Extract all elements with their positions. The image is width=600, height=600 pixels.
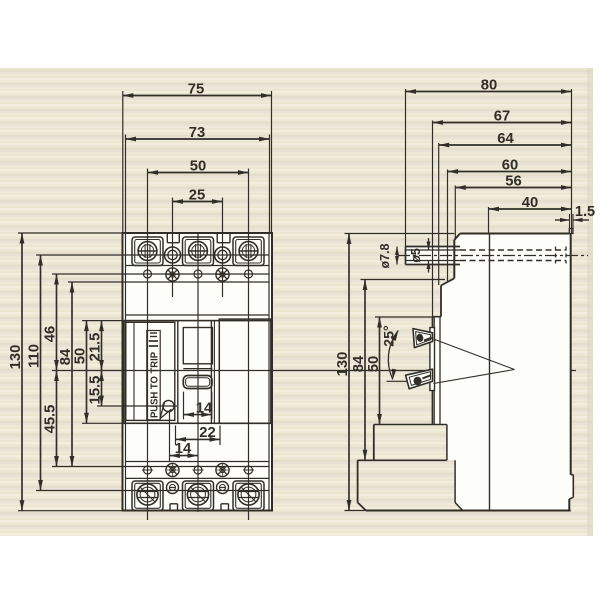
front body outline [123, 233, 273, 511]
dim 73 [126, 138, 270, 140]
front view body white fill [123, 233, 273, 511]
top clamp ring 2 [215, 247, 231, 263]
84s ext top [361, 279, 446, 281]
handle window [183, 328, 212, 364]
dim 46 [56, 274, 58, 371]
75 ext right [271, 91, 273, 233]
handle column right line [210, 321, 212, 424]
svg-text:130: 130 [8, 345, 24, 370]
dim 50 side [379, 317, 381, 425]
110 ext top line [36, 254, 269, 256]
dim 84 side [364, 280, 366, 461]
side top-left chamfer [454, 234, 460, 241]
top phillips screw 2 [216, 268, 229, 281]
svg-text:ø7.8: ø7.8 [378, 243, 392, 268]
73 ext right [269, 135, 271, 234]
top edge notch left [166, 233, 168, 243]
side top edge [460, 233, 569, 235]
aux screw line left [172, 198, 174, 298]
side right edge upper [570, 234, 572, 475]
handle travel line upper [434, 339, 515, 370]
terminal block bottom line [126, 265, 270, 267]
side right notch [571, 474, 574, 476]
64 ext [438, 143, 440, 285]
bottom ring screw 2 [217, 482, 229, 494]
top edge notch right [216, 233, 218, 243]
handle bezel [430, 328, 435, 391]
right ext line [571, 89, 573, 234]
case step line [126, 314, 270, 316]
bottom terminal pocket 1 [132, 481, 163, 511]
handle travel line lower [434, 370, 515, 384]
side bottom edge [366, 510, 571, 512]
front body inner side line left [125, 233, 127, 511]
dim 110 [40, 255, 42, 491]
svg-text:40: 40 [522, 195, 538, 211]
svg-text:60: 60 [502, 158, 518, 174]
svg-text:PUSH TO TRIP: PUSH TO TRIP [149, 352, 160, 418]
side step vert 1 [373, 425, 375, 461]
dim 84 [71, 282, 73, 467]
svg-text:84: 84 [351, 355, 367, 372]
dim 40 [489, 208, 572, 210]
svg-text:50: 50 [366, 356, 382, 372]
15.5 ext bottom [97, 405, 177, 407]
top terminal pocket 2 [183, 237, 214, 266]
toggle OFF position [406, 369, 433, 389]
bottom phillips screw 1 [166, 463, 179, 476]
case line bottom a [126, 461, 270, 463]
bottom terminal pocket 2 [183, 481, 214, 511]
trip button [163, 400, 174, 411]
side face line [432, 317, 434, 425]
svg-text:21.5: 21.5 [87, 333, 103, 362]
67 ext [432, 121, 434, 317]
svg-text:80: 80 [481, 78, 497, 94]
trip indicator marks [149, 345, 158, 347]
side step line 1 [374, 424, 447, 426]
side body white fill [433, 234, 574, 511]
130 ext top [18, 232, 123, 234]
dim 75 [123, 95, 272, 97]
bottom small cross screw 3 [245, 466, 253, 474]
svg-text:84: 84 [58, 348, 74, 365]
svg-text:25°: 25° [382, 325, 398, 347]
side cover edge [440, 286, 442, 317]
side internal vert 40 [489, 234, 491, 511]
side chamfer to cover [441, 278, 454, 285]
scan right edge shade [587, 68, 593, 536]
side face line2 [433, 317, 435, 425]
phi 7.8 dim [396, 247, 398, 265]
top small cross screw 1 [144, 270, 152, 278]
dim 130 [21, 233, 23, 511]
top phillips screw 1 [166, 268, 179, 281]
pole centre line middle [197, 233, 199, 512]
50L ext bottom [82, 422, 124, 424]
case line a [68, 281, 269, 283]
left panel [126, 322, 175, 420]
bottom terminal screw 3 [238, 484, 259, 505]
toggle handle [183, 376, 212, 389]
lug hole top line [406, 249, 461, 251]
handle column right line2 [213, 321, 215, 424]
svg-text:45.5: 45.5 [42, 405, 58, 434]
bottom edge notch left [169, 504, 171, 511]
handle centre line [52, 370, 576, 372]
110 ext bottom line [36, 490, 269, 492]
svg-text:50: 50 [73, 348, 89, 364]
bottom edge notch right [220, 504, 222, 511]
pole centre line right [248, 169, 250, 521]
push-to-trip label box [147, 331, 160, 420]
svg-text:25: 25 [189, 188, 205, 204]
130s ext bottom [345, 510, 367, 512]
svg-text:15.5: 15.5 [88, 376, 104, 405]
svg-text:64: 64 [497, 131, 514, 147]
svg-text:67: 67 [494, 109, 510, 125]
25 deg tick [387, 380, 407, 382]
dim 64 [439, 144, 572, 146]
toggle ON position [413, 329, 433, 348]
side cover line lower [439, 317, 441, 425]
svg-text:1.5: 1.5 [575, 204, 595, 220]
dim 80 [406, 91, 572, 93]
14a ext left [183, 392, 185, 420]
svg-text:50: 50 [190, 159, 206, 175]
side top tab [569, 229, 573, 234]
dim 14 handle [184, 414, 212, 416]
bottom block top line [126, 477, 270, 479]
top clamp ring 1 [165, 247, 181, 263]
lug hole dashed top [460, 249, 566, 251]
dim 21.5 [101, 321, 103, 371]
dim 56 [455, 187, 571, 189]
handle window bottom line [183, 368, 212, 370]
40 ext [488, 207, 490, 234]
dim 22 [176, 438, 221, 440]
svg-text:46: 46 [42, 326, 58, 342]
side inner base chamfer [455, 503, 463, 511]
svg-text:110: 110 [26, 344, 42, 368]
dim 67 [433, 122, 572, 124]
side inner step vert 2 [454, 460, 456, 502]
top small cross screw 2 [194, 270, 202, 278]
dim 130 side [348, 234, 350, 511]
front body inner side line right [268, 233, 270, 511]
80 ext left [405, 89, 407, 247]
22 ext right [219, 426, 221, 446]
22 ext left [175, 426, 177, 446]
aux screw line right [222, 198, 224, 298]
56 ext [454, 186, 456, 241]
side inner step vert 1 [446, 425, 448, 461]
dim 14 bottom [170, 455, 199, 457]
50L ext top [82, 320, 124, 322]
dim 45.5 [56, 371, 58, 467]
top terminal screw 3 [239, 242, 258, 261]
dim 50 top [148, 172, 249, 174]
left panel inner line [133, 322, 135, 420]
bottom small cross screw 1 [144, 466, 152, 474]
side face step [433, 316, 442, 318]
case line bottom b (84/45.5 ext) [52, 466, 269, 468]
1.5 ext right [572, 214, 574, 229]
bottom phillips screw 2 [216, 463, 229, 476]
dim 15.5 [101, 371, 103, 407]
bottom ring screw 1 [167, 482, 179, 494]
top small cross screw 3 [245, 270, 253, 278]
top terminal screw 2 [189, 242, 208, 261]
svg-text:130: 130 [335, 352, 351, 377]
top terminal pocket 1 [132, 237, 163, 266]
lug hole dashed bottom [460, 260, 566, 262]
side step line 2 [358, 459, 447, 461]
svg-text:14: 14 [175, 441, 192, 457]
lug centre dash-dot [398, 255, 588, 257]
scanned paper area [0, 68, 593, 536]
bottom terminal screw 1 [137, 484, 158, 505]
side lug white fill [406, 247, 461, 265]
1.5 ext left [569, 214, 571, 229]
top terminal pocket 3 [233, 237, 264, 266]
dim 25 [173, 201, 223, 203]
14a ext right [211, 392, 213, 420]
handle column left line [177, 321, 179, 424]
lug outline [406, 246, 461, 248]
lug hole bottom line [406, 260, 461, 262]
75 ext left [122, 91, 124, 233]
130 ext bottom [18, 510, 123, 512]
side step vert 2 [357, 460, 359, 502]
130s ext top [345, 233, 455, 235]
side base chamfer [358, 503, 366, 511]
svg-text:56: 56 [505, 174, 521, 190]
bottom small cross screw 2 [194, 466, 202, 474]
screw row line (46 ext) [52, 273, 269, 275]
side right edge lower [568, 499, 570, 511]
svg-text:73: 73 [189, 125, 205, 141]
svg-text:14: 14 [196, 400, 213, 416]
dim 60 [448, 171, 572, 173]
bottom terminal pocket 3 [233, 481, 264, 511]
svg-text:75: 75 [188, 82, 204, 98]
50s ext top [375, 316, 433, 318]
bottom terminal screw 2 [187, 484, 208, 505]
side upper-left edge [453, 240, 455, 278]
60 ext [447, 170, 449, 282]
phi 5 dim [428, 238, 430, 250]
dim 50 left [86, 321, 88, 424]
25 deg arc [388, 331, 398, 380]
svg-text:22: 22 [199, 425, 215, 441]
pole centre line left [147, 169, 149, 521]
top terminal screw 1 [138, 242, 157, 261]
dim 1.5 [555, 219, 570, 221]
face plate outline [124, 321, 271, 424]
right panel [219, 319, 271, 423]
73 ext left [125, 135, 127, 234]
lug hole end dashed2 [565, 247, 567, 264]
svg-text:ø5: ø5 [409, 248, 423, 263]
lug hole end dashed [555, 247, 557, 264]
14b ext left [169, 411, 171, 462]
